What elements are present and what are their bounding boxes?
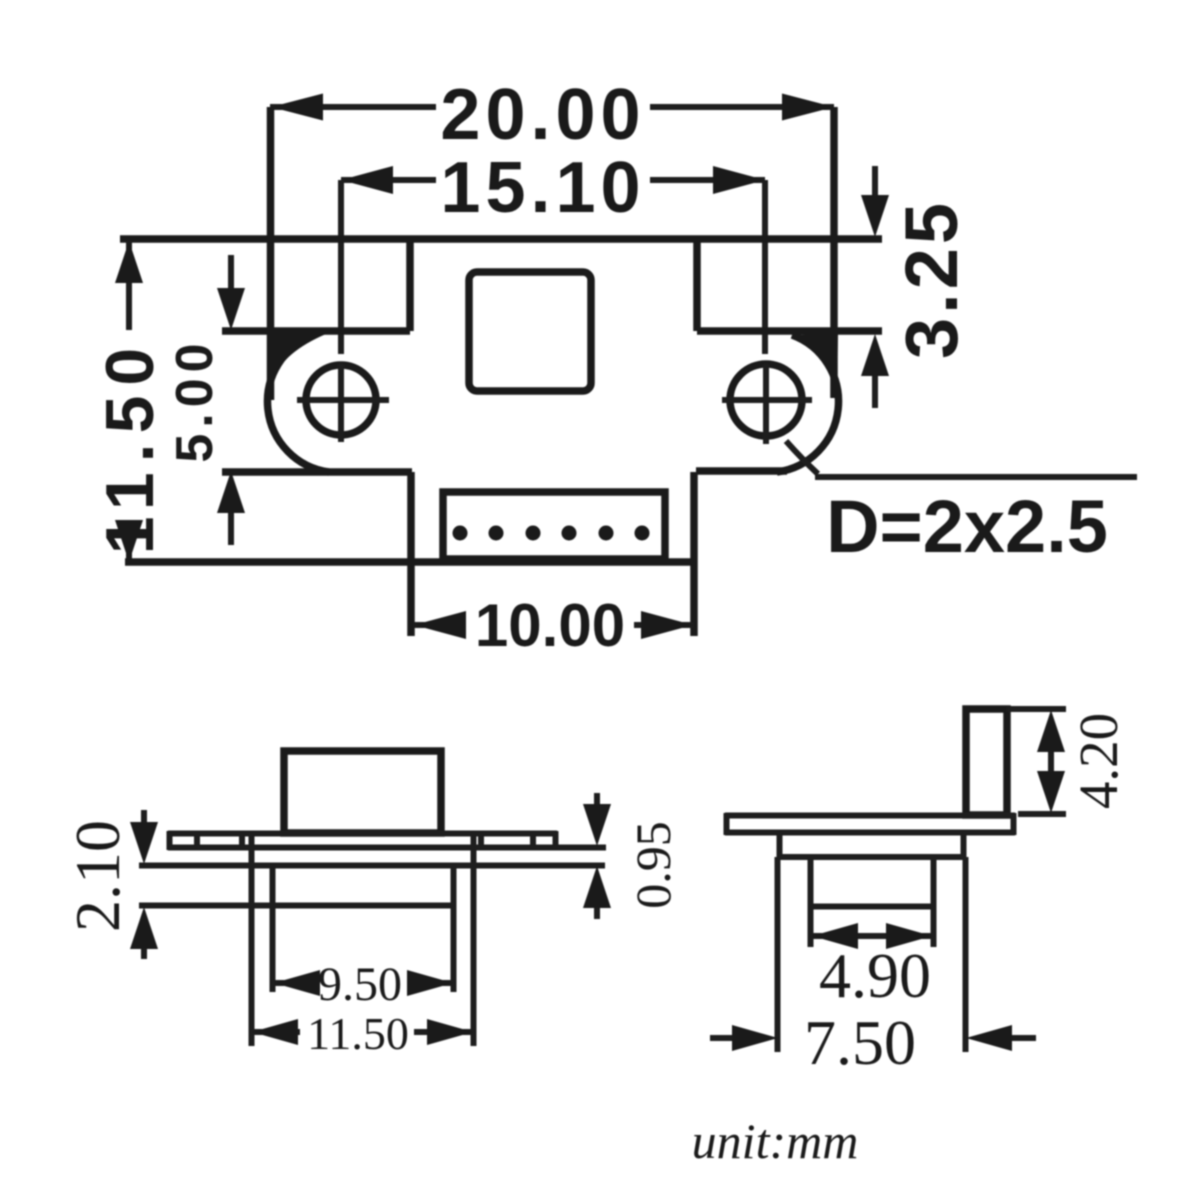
connector pins (6 dots) — [453, 526, 650, 541]
flange top line — [168, 831, 557, 837]
left ear top wedge — [268, 332, 326, 378]
body wall 9.5 right — [451, 865, 457, 992]
dim 11.50 (top view) — [92, 241, 168, 562]
central square window — [469, 272, 591, 391]
board bottom edge — [125, 558, 694, 566]
7.50 ext lines — [775, 857, 781, 1052]
flange caps — [724, 813, 730, 835]
dim 15.10 line — [341, 148, 765, 354]
svg-text:0.95: 0.95 — [625, 821, 681, 909]
svg-text:15.10: 15.10 — [440, 148, 645, 228]
arrowhead left 20.00 — [271, 94, 323, 121]
hole edge ticks — [194, 832, 200, 849]
dim 3.25 — [861, 166, 973, 408]
flange bottom — [725, 830, 1015, 836]
svg-text:11.50: 11.50 — [92, 338, 168, 554]
vertical tab — [966, 709, 1007, 815]
dim 5.00 — [166, 255, 245, 545]
svg-text:2.10: 2.10 — [62, 820, 133, 932]
connector rect — [443, 492, 665, 559]
arrowhead left 15.10 — [341, 166, 393, 194]
left hole — [297, 364, 389, 442]
dim 20.00 line — [270, 75, 834, 155]
svg-text:D=2x2.5: D=2x2.5 — [826, 485, 1108, 568]
right ear top wedge — [794, 333, 838, 382]
step1 bottom — [779, 854, 964, 860]
svg-text:5.00: 5.00 — [166, 337, 224, 462]
body wall 11.5 right — [471, 831, 477, 1046]
step line left — [222, 327, 410, 335]
line D (body bottom) — [139, 903, 454, 909]
step vertical right — [693, 239, 701, 331]
left ear arc — [268, 335, 329, 472]
svg-text:4.90: 4.90 — [819, 940, 931, 1011]
arrowhead right 20.00 — [782, 94, 834, 121]
flange bottom line — [168, 845, 606, 851]
step1 walls — [777, 833, 783, 857]
line C (step bottom) — [139, 863, 605, 869]
svg-text:3.25: 3.25 — [890, 199, 973, 359]
svg-text:11.50: 11.50 — [307, 1008, 409, 1059]
step vertical left — [406, 239, 414, 331]
body wall 9.5 left — [270, 865, 276, 992]
step line right — [697, 327, 882, 335]
dim 2.10 — [62, 810, 158, 959]
flange right cap — [553, 831, 559, 850]
body wall 11.5 left — [249, 831, 255, 1046]
ext line 15.10 left — [338, 180, 344, 354]
dim 4.90 — [812, 923, 932, 1011]
dim 7.50 — [710, 1007, 1036, 1078]
lower line left (5.00 ref) — [222, 468, 412, 476]
right hole — [722, 364, 812, 444]
svg-text:4.20: 4.20 — [1068, 713, 1129, 809]
svg-text:unit:mm: unit:mm — [692, 1113, 859, 1169]
svg-text:9.50: 9.50 — [318, 958, 402, 1011]
dim 0.95 — [583, 793, 681, 919]
svg-text:10.00: 10.00 — [475, 592, 625, 659]
right ear arc — [777, 335, 838, 472]
arrowhead right 15.10 — [713, 166, 765, 194]
top block — [284, 751, 441, 833]
svg-text:20.00: 20.00 — [440, 75, 645, 155]
connector ext left — [407, 472, 415, 636]
board right edge + 20.00 ext — [830, 107, 838, 398]
4.90 ext stubs — [808, 906, 814, 947]
flange top — [725, 813, 1015, 819]
svg-text:7.50: 7.50 — [804, 1007, 916, 1078]
board left edge + 20.00 ext — [267, 107, 275, 400]
ext line 15.10 right — [762, 180, 768, 354]
leader D=2x2.5 — [786, 441, 1137, 568]
dim 9.50 — [274, 958, 453, 1011]
dim 11.50 (side view) — [252, 1008, 473, 1059]
lower edge right of connector — [696, 467, 787, 475]
step2 bottom — [810, 904, 934, 910]
dim 4.20 — [1007, 709, 1129, 814]
board top edge — [120, 235, 882, 243]
dim 10.00 — [414, 592, 693, 659]
connector ext right — [690, 472, 698, 636]
step2 walls — [808, 857, 814, 906]
flange left cap — [167, 831, 173, 850]
